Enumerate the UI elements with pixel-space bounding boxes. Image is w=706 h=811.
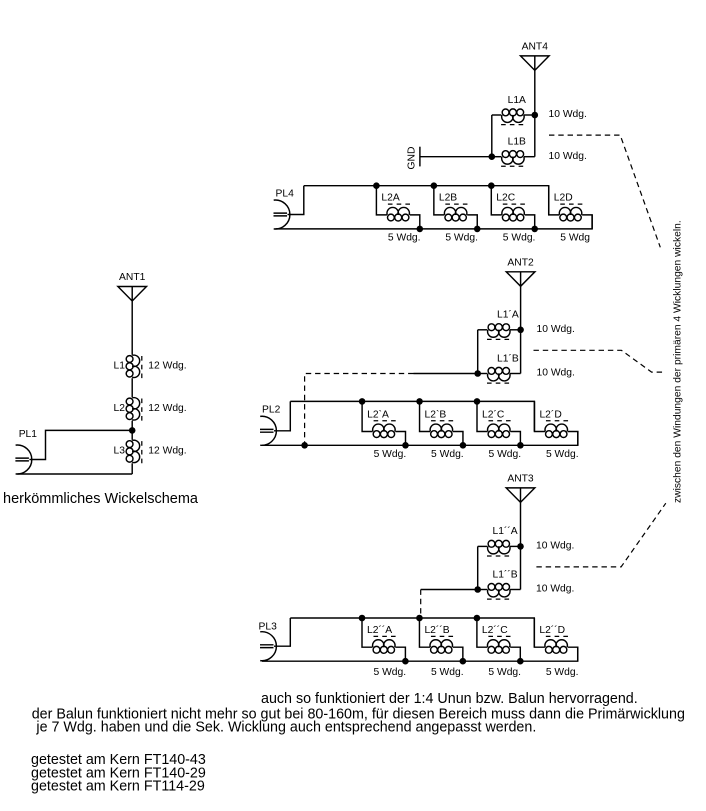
svg-text:L3: L3 [114, 445, 126, 456]
connector PL1 (coax plug) [15, 429, 37, 474]
value label 10 Wdg. (L1A) [549, 109, 587, 120]
connector PL3 (coax plug) [259, 622, 278, 661]
wire PL4 top rail [304, 186, 549, 215]
dashed tap connection to PL2 bottom rail [305, 374, 414, 446]
svg-text:L2´´D: L2´´D [539, 624, 565, 636]
svg-text:5 Wdg.: 5 Wdg. [374, 449, 407, 460]
svg-text:L2´´A: L2´´A [367, 624, 392, 636]
note getestet am Kern FT140-29 [31, 765, 206, 781]
svg-text:L1´B: L1´B [497, 352, 519, 364]
svg-text:L2: L2 [114, 403, 126, 414]
wire L3 to bottom return [131, 463, 133, 474]
inductor L2´C [477, 401, 520, 445]
inductor L2´´B [419, 618, 462, 661]
wire tap stub from L1´´B junction [421, 589, 478, 591]
node junction top rail L2´C [474, 398, 481, 405]
wire L1´A left to L1´B junction [477, 330, 479, 374]
value label 5 Wdg. [431, 449, 464, 460]
svg-text:PL4: PL4 [276, 188, 295, 199]
svg-text:ANT2: ANT2 [507, 257, 534, 268]
svg-text:10 Wdg.: 10 Wdg. [536, 541, 574, 552]
antenna ANT1 [118, 272, 147, 301]
svg-text:ANT4: ANT4 [522, 41, 549, 52]
svg-text:5 Wdg.: 5 Wdg. [546, 449, 579, 460]
svg-text:10 Wdg.: 10 Wdg. [536, 584, 574, 595]
connector PL2 (coax plug) [260, 405, 281, 446]
inductor L2´´C [477, 618, 520, 661]
svg-text:5 Wdg.: 5 Wdg. [388, 233, 421, 244]
svg-text:5 Wdg.: 5 Wdg. [445, 233, 478, 244]
inductor L2`A [362, 401, 405, 445]
wire antenna ANT1 to L1 [131, 301, 133, 355]
inductor L1A [492, 95, 535, 125]
svg-text:10 Wdg.: 10 Wdg. [549, 151, 587, 162]
wire ANT2 main vertical [520, 286, 522, 373]
svg-text:L2C: L2C [496, 193, 515, 204]
svg-text:L2B: L2B [439, 193, 457, 204]
antenna ANT3 [506, 473, 535, 502]
svg-text:L2A: L2A [381, 193, 399, 204]
value label 5 Wdg. [546, 667, 579, 678]
value label 5 Wdg. [445, 233, 478, 244]
svg-text:12 Wdg.: 12 Wdg. [148, 445, 186, 456]
value label 5 Wdg. [488, 667, 521, 678]
caption line 1 [261, 691, 638, 707]
inductor L1´´A [478, 525, 521, 556]
caption line 2 [32, 706, 685, 722]
wire PL4 bottom rail [276, 215, 593, 229]
inductor L2`B [420, 401, 463, 445]
svg-text:ANT1: ANT1 [119, 272, 146, 283]
wire L1´´A left to L1´´B junction [477, 546, 479, 589]
node junction bottom rail L2´´C [517, 658, 524, 665]
svg-text:PL1: PL1 [19, 429, 38, 440]
inductor L2C [491, 186, 534, 229]
node junction top rail L2´´A [359, 615, 366, 622]
svg-text:5 Wdg.: 5 Wdg. [546, 667, 579, 678]
dashed tap connection to PL3 top rail [420, 590, 422, 618]
node junction top rail L2`B [416, 398, 423, 405]
svg-text:5 Wdg.: 5 Wdg. [488, 667, 521, 678]
node junction L2/L3/PL1 pin [129, 427, 136, 434]
wire L2 to L3 through node [131, 421, 133, 440]
dashed annotation line from L1´A/L1´B [534, 350, 665, 372]
svg-text:10 Wdg.: 10 Wdg. [537, 324, 575, 335]
svg-text:PL3: PL3 [259, 622, 278, 633]
node junction top rail L2`A [359, 398, 366, 405]
wire PL3 top rail [290, 618, 534, 647]
note (rotated): zwischen den Windungen der primaeren 4 Wicklungen wickeln. [673, 220, 684, 503]
svg-text:L2D: L2D [554, 193, 573, 204]
value label 10 Wdg. (L1´B) [537, 368, 575, 379]
wire L1 to L2 [131, 378, 133, 397]
inductor L1B [492, 137, 535, 167]
ground GND terminal [407, 147, 420, 170]
connector PL4 (coax plug) [274, 188, 295, 229]
svg-text:GND: GND [407, 147, 418, 170]
value label 5 Wdg. [503, 233, 536, 244]
inductor L1´A [478, 309, 521, 340]
wire PL2 bottom rail [262, 432, 578, 446]
node junction top rail L2´´B [416, 615, 423, 622]
caption line 3 [35, 720, 536, 736]
inductor L2B [434, 186, 477, 229]
wire PL3 pin up to top rail [274, 618, 290, 646]
node junction bottom rail L2´C [517, 442, 524, 449]
value label 5 Wdg. [489, 449, 522, 460]
node junction bottom rail L2´´B [460, 658, 467, 665]
wire L1A left to L1B junction [491, 115, 493, 157]
value label 5 Wdg. [431, 667, 464, 678]
node node L1´´A / antenna ANT3 [517, 543, 524, 550]
value label 10 Wdg. (L1´´A) [536, 541, 574, 552]
svg-text:10 Wdg.: 10 Wdg. [549, 109, 587, 120]
inductor L2 (12 Wdg.) [114, 397, 187, 420]
svg-text:12 Wdg.: 12 Wdg. [148, 403, 186, 414]
svg-text:L1B: L1B [508, 137, 526, 148]
wire PL1 shield to L3 bottom [17, 473, 132, 475]
node junction bottom rail L2A [417, 226, 424, 233]
svg-text:zwischen den Windungen der pri: zwischen den Windungen der primären 4 Wi… [673, 220, 684, 503]
svg-text:auch so funktioniert der 1:4 U: auch so funktioniert der 1:4 Unun bzw. B… [261, 691, 638, 707]
svg-text:getestet am Kern FT114-29: getestet am Kern FT114-29 [31, 779, 205, 795]
svg-text:L2´´B: L2´´B [424, 624, 449, 636]
note getestet am Kern FT140-43 [31, 752, 206, 768]
svg-text:je 7 Wdg. haben und die Sek. W: je 7 Wdg. haben und die Sek. Wicklung au… [35, 720, 536, 736]
node junction bottom rail L2´´A [402, 658, 409, 665]
svg-text:5 Wdg.: 5 Wdg. [489, 449, 522, 460]
wire ANT3 main vertical [520, 502, 522, 589]
svg-text:5 Wdg.: 5 Wdg. [431, 667, 464, 678]
wire tap stub from L1´B junction [414, 373, 478, 375]
svg-text:L1: L1 [114, 360, 126, 371]
wire GND to junction [420, 156, 492, 158]
title herkoemmliches Wickelschema [3, 491, 199, 507]
note getestet am Kern FT114-29 [31, 779, 205, 795]
value label 5 Wdg. [388, 233, 421, 244]
wire PL2 pin up to top rail [274, 401, 290, 430]
value label 10 Wdg. (L1´A) [537, 324, 575, 335]
svg-text:5 Wdg.: 5 Wdg. [431, 449, 464, 460]
value label 10 Wdg. (L1B) [549, 151, 587, 162]
inductor L2´D [534, 401, 577, 445]
svg-text:ANT3: ANT3 [507, 473, 534, 484]
wire ANT4 main vertical [534, 70, 536, 156]
node junction bottom rail L2B [474, 226, 481, 233]
antenna ANT4 [521, 41, 550, 70]
svg-text:5 Wdg.: 5 Wdg. [374, 667, 407, 678]
value label 5 Wdg. [374, 667, 407, 678]
svg-text:12 Wdg.: 12 Wdg. [148, 360, 186, 371]
svg-text:L1´A: L1´A [497, 309, 519, 321]
svg-text:L2´C: L2´C [482, 408, 505, 420]
svg-text:PL2: PL2 [262, 405, 281, 416]
node junction bottom rail L2C [531, 226, 538, 233]
svg-text:L2´´C: L2´´C [482, 624, 508, 636]
node junction dashed tap on PL2 bottom rail [301, 442, 308, 449]
svg-text:10 Wdg.: 10 Wdg. [537, 368, 575, 379]
node junction top rail L2´´C [474, 615, 481, 622]
dashed annotation line from L1´´A/L1´´B [536, 503, 665, 567]
inductor L2´´A [362, 618, 405, 661]
inductor L1 (12 Wdg.) [114, 355, 187, 378]
inductor L2A [376, 186, 419, 229]
inductor L1´B [478, 352, 521, 383]
inductor L1´´B [478, 568, 521, 599]
wire PL3 bottom rail [262, 647, 578, 661]
value label 5 Wdg. [546, 449, 579, 460]
svg-text:L2`A: L2`A [367, 408, 389, 420]
dashed annotation line from L1A/L1B [549, 135, 660, 247]
svg-text:5 Wdg.: 5 Wdg. [503, 233, 536, 244]
inductor L3 (12 Wdg.) [114, 440, 187, 463]
node junction L1´´A / L1´´B / tap [474, 586, 481, 593]
node node L1A / antenna ANT4 [532, 112, 539, 119]
value label 5 Wdg [560, 233, 590, 244]
svg-text:L1A: L1A [508, 95, 526, 106]
value label 5 Wdg. [374, 449, 407, 460]
wire PL1 pin to junction [29, 430, 132, 459]
inductor L2D [549, 186, 592, 229]
node node L1´A / antenna ANT2 [517, 327, 524, 334]
svg-text:L1´´A: L1´´A [493, 525, 518, 537]
node junction bottom rail L2`B [460, 442, 467, 449]
wire PL4 pin up to top rail [288, 186, 304, 215]
antenna ANT2 [506, 257, 535, 286]
node junction top rail L2A [373, 182, 380, 189]
wire PL2 top rail [290, 401, 534, 431]
svg-text:5 Wdg: 5 Wdg [560, 233, 590, 244]
node junction L1´A / L1´B / tap [474, 370, 481, 377]
node junction bottom rail L2`A [402, 442, 409, 449]
node junction GND / L1A / L1B [489, 153, 496, 160]
value label 10 Wdg. (L1´´B) [536, 584, 574, 595]
inductor L2´´D [534, 618, 577, 661]
node junction top rail L2C [488, 182, 495, 189]
svg-text:L1´´B: L1´´B [493, 568, 518, 580]
svg-text:herkömmliches Wickelschema: herkömmliches Wickelschema [3, 491, 199, 507]
svg-text:L2´D: L2´D [539, 408, 561, 420]
node junction top rail L2B [431, 182, 438, 189]
svg-text:L2`B: L2`B [425, 408, 447, 420]
